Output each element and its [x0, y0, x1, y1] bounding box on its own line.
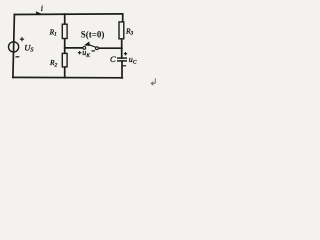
wire capacitor bottom lead	[121, 61, 123, 78]
wire right top lead	[122, 14, 124, 22]
label + of u_C	[124, 52, 127, 55]
switch contact left	[83, 47, 86, 50]
label - of u_C	[123, 65, 126, 67]
svg-text:i: i	[41, 4, 43, 13]
wire R3 bottom to capacitor	[121, 39, 123, 58]
wire bottom	[13, 76, 122, 78]
resistor R2	[62, 53, 67, 67]
wire switch to right branch	[98, 47, 122, 49]
source U_S circle	[9, 42, 19, 52]
label - of u_K	[92, 50, 96, 52]
switch arrowhead	[84, 41, 90, 46]
wire middle node to switch	[65, 47, 83, 49]
resistor R1	[62, 24, 67, 38]
label - of source	[16, 56, 20, 58]
wire top	[14, 13, 122, 16]
switch contact right	[96, 47, 99, 50]
capacitor C plates	[117, 58, 127, 61]
wire R2 bottom lead	[64, 67, 66, 78]
svg-text:C: C	[110, 54, 116, 64]
wire R1-R2 middle lead	[64, 39, 66, 54]
paragraph return mark	[151, 78, 155, 85]
wire left	[13, 15, 15, 78]
switch blade	[87, 44, 96, 47]
label + of u_K	[78, 51, 81, 54]
current arrow i	[36, 11, 42, 15]
resistor R3	[119, 22, 124, 39]
wire R1 top lead	[64, 14, 66, 24]
svg-text:S(t=0): S(t=0)	[81, 30, 105, 40]
label + of source	[20, 37, 24, 41]
